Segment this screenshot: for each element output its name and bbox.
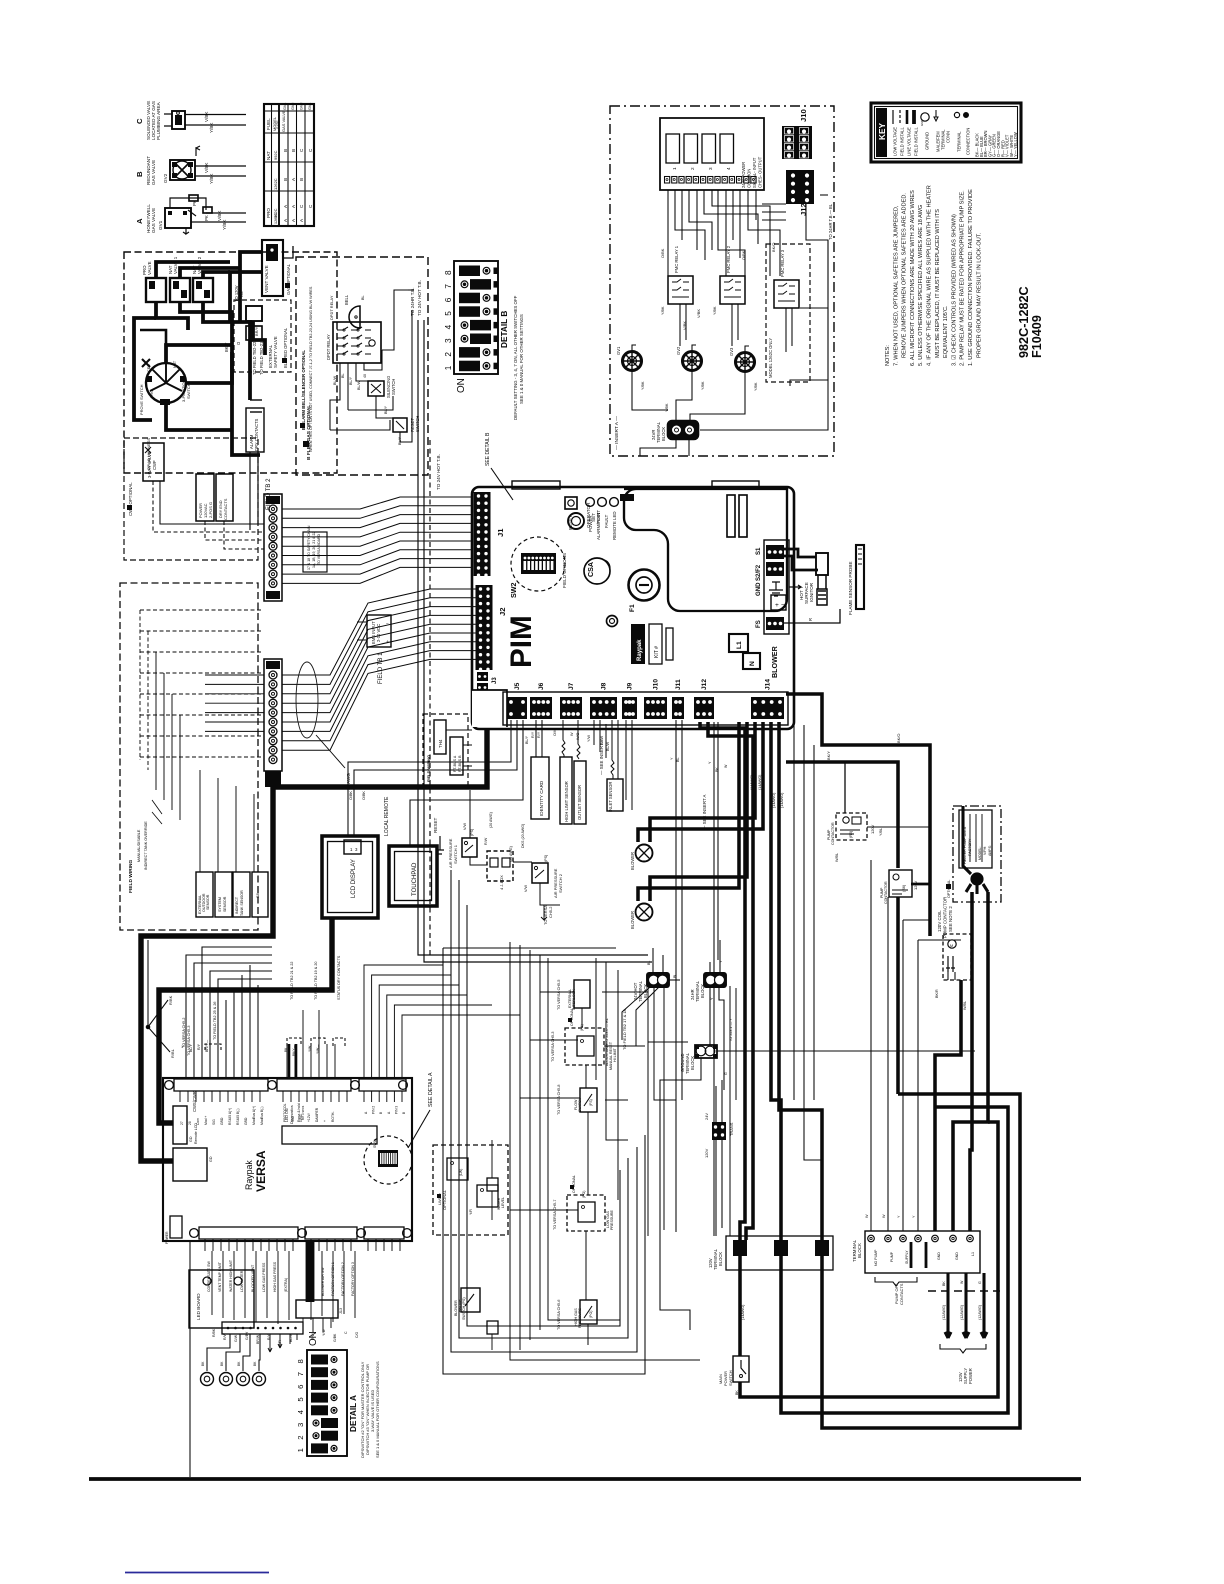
svg-text:FLAME SENSOR PROBE: FLAME SENSOR PROBE xyxy=(848,561,853,615)
wire valve B V/BK xyxy=(195,165,246,167)
sensor box SYSTEM SENSOR xyxy=(215,872,232,917)
svg-text:BK/Y: BK/Y xyxy=(224,342,229,352)
svg-text:BR/Y—: BR/Y— xyxy=(205,1040,209,1052)
svg-text:(12AWG): (12AWG) xyxy=(942,1305,946,1320)
wire valve C V/BK xyxy=(185,114,246,116)
reset button and status LEDs xyxy=(565,494,634,540)
vent valve heavy wires xyxy=(230,246,293,305)
svg-text:LEVEL: LEVEL xyxy=(501,1197,505,1208)
svg-text:V/W: V/W xyxy=(463,822,467,830)
svg-text:BK/Y—: BK/Y— xyxy=(292,1044,296,1056)
connector GV1 plug xyxy=(616,345,645,390)
VERSA bottom terminal strip 2 xyxy=(305,1227,365,1251)
heavy loop L3 xyxy=(822,897,1020,1428)
LED strip other leads xyxy=(268,1334,297,1352)
dashed bracket TO FIELD TB2 19 and 20 xyxy=(308,962,325,1054)
svg-text:Y/BK: Y/BK xyxy=(713,306,717,315)
transformer TO 120V T.B. xyxy=(230,285,265,355)
valve B (redundant gas valve) symbol xyxy=(170,146,200,180)
svg-text:TO FIELD TB2-22: TO FIELD TB2-22 xyxy=(252,341,257,375)
silencing switch xyxy=(363,374,396,398)
svg-text:PMC RELAY 2: PMC RELAY 2 xyxy=(726,245,731,273)
svg-text:FS: FS xyxy=(756,620,762,628)
svg-text:TO FIELD TB2 19 & 20: TO FIELD TB2 19 & 20 xyxy=(314,962,318,1000)
svg-text:SAFETY VALVE: SAFETY VALVE xyxy=(273,336,278,368)
svg-text:PRESSURE: PRESSURE xyxy=(610,1209,614,1230)
heavy wire J14 right to pump circuit (BK/O) xyxy=(786,694,930,936)
svg-text:BLOWER: BLOWER xyxy=(630,911,635,929)
svg-text:DKS (20 AWG): DKS (20 AWG) xyxy=(521,824,525,848)
heavy trunk LCD to VERSA remote LCD connector xyxy=(159,918,332,1123)
svg-text:6: 6 xyxy=(296,1385,305,1389)
flame sensor probe xyxy=(848,545,864,615)
heavy pump feed wires down xyxy=(935,892,988,1231)
120V coil pump contactor note xyxy=(937,897,953,938)
wires CWS box to TB2 xyxy=(153,481,264,549)
svg-text:(12AWG): (12AWG) xyxy=(960,1305,964,1320)
field terminal strip TB1 xyxy=(264,659,282,771)
svg-text:W: W xyxy=(570,732,574,736)
svg-text:G/BY: G/BY xyxy=(245,1331,249,1340)
relay PMC RELAY 3 xyxy=(774,249,799,308)
svg-text:POWER: POWER xyxy=(968,1368,973,1384)
VERSA bottom field wires xyxy=(212,1251,359,1346)
svg-text:992C: 992C xyxy=(273,150,278,160)
heavy wires J12 J14 descending to 120V terminal block xyxy=(700,722,822,1240)
svg-text:TO 24HR T.B.: TO 24HR T.B. xyxy=(410,287,415,316)
wire valve A Y/BK xyxy=(191,221,246,223)
svg-text:B: B xyxy=(283,149,288,152)
svg-text:SWITCH: SWITCH xyxy=(186,383,191,399)
svg-text:R/BK: R/BK xyxy=(212,1328,216,1337)
fan damper dry contacts box xyxy=(216,474,233,521)
svg-text:J10: J10 xyxy=(653,679,660,690)
operator set point trimpot xyxy=(568,502,601,529)
svg-text:R/Y: R/Y xyxy=(197,1043,201,1050)
svg-text:(PG): (PG) xyxy=(582,1191,586,1198)
svg-text:FIELD WIRING: FIELD WIRING xyxy=(426,755,431,782)
svg-text:PROVE SWITCH: PROVE SWITCH xyxy=(139,384,144,415)
svg-text:S1: S1 xyxy=(756,547,762,555)
wire valve B Y/BK xyxy=(195,175,246,177)
SEE DETAIL A dashed circle with SW1 xyxy=(364,1136,412,1184)
LCD display module xyxy=(322,836,378,918)
external safety valve dashed box xyxy=(234,300,291,372)
svg-text:SENSOR: SENSOR xyxy=(223,896,227,912)
heavy wires J14 to blower 2 xyxy=(638,722,747,901)
svg-text:GRD: GRD xyxy=(220,1117,224,1125)
svg-text:INDIRECT TANK OVERRIDE: INDIRECT TANK OVERRIDE xyxy=(144,821,148,870)
svg-text:1262C: 1262C xyxy=(274,213,278,224)
120V TB connector 3 xyxy=(815,1240,829,1256)
field wiring dashed box TH4 / PT-BUS xyxy=(423,714,468,786)
heater pump data factory label box xyxy=(946,806,1001,902)
svg-text:GAS OPTIONAL: GAS OPTIONAL xyxy=(286,263,291,295)
fuse F1 xyxy=(629,570,660,613)
svg-text:SWITCH: SWITCH xyxy=(391,379,396,395)
svg-text:GV1: GV1 xyxy=(616,346,621,355)
SW2 field options DIP switch xyxy=(510,537,567,598)
svg-text:OUTLET SENSOR: OUTLET SENSOR xyxy=(577,785,582,820)
svg-text:LOW VOLTAGE: LOW VOLTAGE xyxy=(893,127,898,156)
pump contactor coil dashed box xyxy=(935,934,971,1010)
svg-text:TO VERSA CH5-5: TO VERSA CH5-5 xyxy=(557,980,561,1010)
svg-text:2-POS G: 2-POS G xyxy=(208,502,213,518)
bottom middle feeder wires xyxy=(418,955,736,1236)
svg-text:J5: J5 xyxy=(514,682,521,690)
svg-text:Y/BK: Y/BK xyxy=(222,219,227,230)
svg-text:W/BL: W/BL xyxy=(963,1001,967,1010)
ground lead 4 with lug xyxy=(253,1334,266,1386)
svg-text:RESET: RESET xyxy=(568,515,573,530)
svg-text:BLOWER: BLOWER xyxy=(771,645,779,678)
svg-text:CONTACTOR: CONTACTOR xyxy=(831,822,835,845)
low gas pressure dashed box xyxy=(553,1175,614,1231)
PIM mounting hole xyxy=(607,616,618,627)
relay PMC RELAY 1 xyxy=(661,245,693,315)
svg-text:DEFAULT SETTING - 3, 4, 7 ON,: DEFAULT SETTING - 3, 4, 7 ON, ALL OTHER … xyxy=(513,295,518,420)
svg-text:V/BK: V/BK xyxy=(217,210,222,221)
LED ON diagnostics bar xyxy=(282,1103,377,1144)
sensor box INDIRECT TANK SENSOR xyxy=(233,872,250,917)
connector J2 xyxy=(476,585,508,671)
DETAIL A switch numbers xyxy=(296,1359,305,1452)
svg-text:PMC RELAY 1: PMC RELAY 1 xyxy=(674,245,679,273)
svg-text:PIN 3: PIN 3 xyxy=(394,1106,398,1114)
svg-text:6: 6 xyxy=(444,297,453,302)
svg-text:3: 3 xyxy=(444,338,453,343)
svg-text:SWITCH: SWITCH xyxy=(578,1097,582,1112)
svg-text:OPTIONAL: OPTIONAL xyxy=(442,1189,447,1210)
120V TB connector 2 xyxy=(774,1240,788,1256)
svg-text:NOTES:: NOTES: xyxy=(885,345,891,366)
svg-text:Y/R: Y/R xyxy=(469,1209,473,1215)
svg-text:J13: J13 xyxy=(339,1308,343,1314)
svg-text:T.B.: T.B. xyxy=(239,291,244,298)
24V block wiring xyxy=(653,940,975,1240)
air switch wiring xyxy=(463,790,560,925)
svg-text:O/BK: O/BK xyxy=(349,791,353,800)
VERSA bottom terminal strip 3 xyxy=(364,1227,411,1251)
svg-text:R: R xyxy=(808,618,813,621)
svg-text:(PG): (PG) xyxy=(589,1311,593,1318)
terminal block 24V HOT xyxy=(633,961,677,1002)
ground lead 2 with lug xyxy=(220,1334,241,1386)
svg-text:DRY CONTACTS: DRY CONTACTS xyxy=(254,418,259,451)
bracket 120V SUPPLY POWER xyxy=(940,1344,986,1384)
svg-text:28: 28 xyxy=(188,1121,192,1125)
svg-text:CONN: CONN xyxy=(946,131,951,143)
wire loop ellipse 20 AWG xyxy=(296,662,351,790)
wires TH4 to PIM J3/J4 xyxy=(446,730,472,766)
heavy wires J14 to blower 1 xyxy=(638,722,763,842)
svg-text:O/BK: O/BK xyxy=(741,250,746,260)
field terminal strip TB2 xyxy=(264,494,282,601)
svg-text:NAT: NAT xyxy=(266,151,271,160)
svg-text:TH4: TH4 xyxy=(438,739,443,748)
main power switch xyxy=(718,1304,749,1395)
svg-text:Y/BK: Y/BK xyxy=(665,403,669,412)
DETAIL B switch numbers 1-8 xyxy=(444,270,453,370)
svg-text:TO 24HR T.B.— BL: TO 24HR T.B.— BL xyxy=(828,203,833,240)
svg-text:5: 5 xyxy=(444,311,453,316)
pump junction dot xyxy=(963,806,988,894)
KEY legend box xyxy=(871,103,1021,162)
svg-text:GV3: GV3 xyxy=(729,347,734,356)
alarm bell internal wiring xyxy=(329,290,412,442)
svg-text:SUPPLY: SUPPLY xyxy=(905,1250,909,1264)
svg-text:BL: BL xyxy=(647,961,651,965)
svg-text:L1: L1 xyxy=(736,641,743,649)
svg-text:Y/BL: Y/BL xyxy=(879,828,883,836)
DETAIL B default setting note xyxy=(513,295,524,420)
svg-text:(20 AWG): (20 AWG) xyxy=(489,812,493,828)
svg-text:WATER HIGH LIMIT: WATER HIGH LIMIT xyxy=(229,1259,233,1292)
svg-text:STATUS DRY CONTACTS: STATUS DRY CONTACTS xyxy=(337,955,341,1000)
svg-text:GV2: GV2 xyxy=(291,103,295,110)
transformer 24V/120V xyxy=(704,1080,734,1236)
svg-text:Y/BK: Y/BK xyxy=(209,122,214,133)
dashed jumper line xyxy=(928,1290,1000,1292)
connector J10 (PIM bottom) xyxy=(644,679,667,719)
svg-text:BR/Y: BR/Y xyxy=(254,326,259,336)
svg-text:BL/Y: BL/Y xyxy=(349,376,353,385)
label Raypak VERSA xyxy=(244,1150,268,1192)
svg-text:J7: J7 xyxy=(568,682,575,690)
VERSA top terminal strip 1 xyxy=(165,1079,277,1102)
svg-text:3. ☑ CHECK CONTROLS PROVIDED: 3. ☑ CHECK CONTROLS PROVIDED (WIRED AS S… xyxy=(950,214,957,366)
svg-text:TO VERSA CH5-7: TO VERSA CH5-7 xyxy=(553,1200,557,1230)
long field wires to TB2 from VERSA xyxy=(186,947,272,1079)
svg-text:(FS): (FS) xyxy=(589,1099,593,1106)
svg-text:SYSTEM: SYSTEM xyxy=(218,897,222,912)
svg-text:POWER: POWER xyxy=(165,1231,169,1244)
insert A lower wiring to 24VR block xyxy=(632,203,833,456)
svg-text:V/BK: V/BK xyxy=(696,309,701,318)
svg-text:W: W xyxy=(865,1214,869,1218)
svg-text:ModBus A(+): ModBus A(+) xyxy=(252,1106,256,1125)
svg-text:N: N xyxy=(749,661,756,666)
svg-text:CSA: CSA xyxy=(587,562,595,577)
svg-text:BL/Y: BL/Y xyxy=(139,991,144,1000)
svg-text:PIM: PIM xyxy=(505,615,538,668)
svg-text:SEE DETAIL B: SEE DETAIL B xyxy=(485,432,491,466)
svg-text:G/W: G/W xyxy=(234,1334,238,1342)
svg-text:FAULT: FAULT xyxy=(604,514,609,528)
svg-text:TO VERSA CH5-8: TO VERSA CH5-8 xyxy=(557,1085,561,1115)
wires S1 to hot surface ignitor xyxy=(784,549,818,570)
svg-text:24V: 24V xyxy=(704,1113,709,1120)
svg-text:SWITCH: SWITCH xyxy=(728,1370,733,1386)
notes text block xyxy=(885,185,982,366)
high limit sensor box xyxy=(553,720,572,824)
air pressure switch 2 xyxy=(524,855,563,898)
svg-text:PMC RELAY 3: PMC RELAY 3 xyxy=(780,249,785,277)
svg-text:MODEL 1262C ONLY: MODEL 1262C ONLY xyxy=(768,338,773,378)
svg-text:MANUAL/DISABLE: MANUAL/DISABLE xyxy=(137,829,141,862)
svg-text:B: B xyxy=(283,178,288,181)
wire valve A V/BK xyxy=(206,212,246,214)
PIM right connector bay S1 S2/F2 GND FS xyxy=(756,540,789,634)
svg-text:Diagnostics: Diagnostics xyxy=(290,1105,294,1124)
svg-text:OPTIONAL: OPTIONAL xyxy=(570,1008,574,1026)
VERSA bottom terminal strip 1 xyxy=(190,1227,307,1251)
VERSA left power wire down to border xyxy=(189,1241,191,1477)
heavy trunk TB1 to VERSA CWS connector xyxy=(141,787,273,1161)
svg-text:REMOVE JUMPERS WHEN OPTIONAL S: REMOVE JUMPERS WHEN OPTIONAL SAFETIES AR… xyxy=(902,193,908,358)
svg-text:CONDENSATE SW: CONDENSATE SW xyxy=(207,1261,211,1292)
TB1 bottom lug pad xyxy=(265,771,281,787)
heavy wire to pump contactor 2 (BK/Y) xyxy=(786,751,898,868)
svg-text:CONTACTS: CONTACTS xyxy=(223,498,228,520)
svg-text:G/BK: G/BK xyxy=(333,1333,337,1342)
svg-text:CONTACTS: CONTACTS xyxy=(899,1283,904,1305)
svg-text:RESET: RESET xyxy=(433,817,438,833)
svg-text:Remote LCD: Remote LCD xyxy=(194,1123,198,1144)
svg-text:BL/Y: BL/Y xyxy=(525,735,529,744)
svg-text:DAMPER: DAMPER xyxy=(315,1107,319,1122)
valve NAT VALVE 2 xyxy=(192,256,213,302)
svg-text:17 & 18 TO SAFETY CHAIN: 17 & 18 TO SAFETY CHAIN xyxy=(307,525,311,570)
alarm bell / silencer optional dashed enclosure xyxy=(296,257,428,475)
svg-text:SIZE: SIZE xyxy=(275,120,280,129)
connector J7 (PIM bottom) xyxy=(560,682,582,719)
svg-text:27: 27 xyxy=(180,1121,184,1125)
svg-text:W/O: W/O xyxy=(576,732,580,740)
versa column interconnect wires xyxy=(510,942,700,1360)
svg-text:Y/W—: Y/W— xyxy=(316,1044,320,1054)
VERSA top terminal strip 3 xyxy=(359,1079,407,1102)
svg-text:+: + xyxy=(323,1120,327,1122)
svg-text:MODEL:: MODEL: xyxy=(978,846,982,860)
svg-text:DPDT RELAY: DPDT RELAY xyxy=(326,334,331,360)
Raypak logo block xyxy=(631,624,645,664)
svg-text:GND: GND xyxy=(955,1252,959,1260)
labels TO FIELD TB2 17 18 / TO J13 xyxy=(605,987,733,1050)
svg-text:HIGH GAS PRESS: HIGH GAS PRESS xyxy=(273,1261,277,1292)
svg-text:IGNITOR: IGNITOR xyxy=(809,582,814,602)
svg-text:J6: J6 xyxy=(538,682,545,690)
svg-text:GV1: GV1 xyxy=(283,103,287,110)
svg-text:CH5-2: CH5-2 xyxy=(548,907,553,918)
svg-text:PRO: PRO xyxy=(266,208,271,218)
heavy loop L2 xyxy=(781,1107,1008,1413)
svg-text:FACTORY OPTION 3: FACTORY OPTION 3 xyxy=(351,1262,355,1296)
wire to 24HR TB long vertical xyxy=(418,320,648,955)
svg-text:F10409: F10409 xyxy=(1030,315,1044,358)
svg-text:1: 1 xyxy=(296,1448,305,1452)
svg-text:4: 4 xyxy=(726,167,731,170)
optional interlock box xyxy=(196,474,214,521)
svg-text:GROUND: GROUND xyxy=(925,132,930,150)
svg-text:Y/BK: Y/BK xyxy=(661,306,665,315)
supply power leads with arrows xyxy=(942,1273,987,1338)
connector GV2 plug xyxy=(676,345,705,390)
svg-text:BL: BL xyxy=(341,373,345,378)
svg-text:KIT #: KIT # xyxy=(654,646,660,658)
labels gas train xyxy=(224,341,312,460)
relay board terminal labels xyxy=(741,156,763,188)
svg-text:BELL: BELL xyxy=(344,294,349,305)
svg-text:GV2: GV2 xyxy=(163,173,168,183)
svg-text:R/W: R/W xyxy=(484,837,488,845)
bottom border line xyxy=(89,1477,1081,1481)
svg-text:TO 24V HOT T.B.: TO 24V HOT T.B. xyxy=(417,280,422,316)
svg-text:PUMP CONTACTOR: PUMP CONTACTOR xyxy=(943,897,948,938)
svg-text:Y/BK: Y/BK xyxy=(641,381,645,390)
svg-text:Y/BK: Y/BK xyxy=(701,381,705,390)
120V terminal block xyxy=(708,1236,833,1270)
touchpad module xyxy=(389,846,437,906)
ribbon cable VERSA to LED connector xyxy=(296,1241,343,1332)
svg-text:Y/BK: Y/BK xyxy=(209,173,214,184)
svg-text:SWITCH 1: SWITCH 1 xyxy=(453,845,458,864)
terminal block GROUND xyxy=(680,1045,717,1074)
dashed bracket TO FIELD TB2 25 and 26 xyxy=(205,1002,221,1050)
svg-text:VENT TEMP LIMIT: VENT TEMP LIMIT xyxy=(218,1261,222,1292)
svg-text:CONNECTION: CONNECTION xyxy=(966,128,971,155)
svg-text:S2/F2: S2/F2 xyxy=(756,564,762,581)
thin pump sense wires down to terminal block xyxy=(865,860,961,1231)
wires TB2 to J1 xyxy=(282,497,473,583)
svg-text:PRESSURE: PRESSURE xyxy=(578,1307,582,1328)
svg-text:F1: F1 xyxy=(629,604,636,612)
svg-text:1: 1 xyxy=(444,365,453,370)
svg-text:C: C xyxy=(135,118,144,124)
svg-text:(12AWG): (12AWG) xyxy=(978,1305,982,1320)
svg-text:V/W: V/W xyxy=(524,884,528,892)
svg-text:O/BK: O/BK xyxy=(362,791,366,800)
connector GV3 plug xyxy=(729,346,758,391)
svg-text:VENT VALVE: VENT VALVE xyxy=(264,265,269,293)
J9-J11 wires down xyxy=(626,720,707,1232)
svg-text:CEE: CEE xyxy=(147,364,151,372)
junction box dashed xyxy=(487,851,513,890)
wires TB1 to field boxes xyxy=(200,675,264,872)
svg-text:AMPS:: AMPS: xyxy=(988,845,992,856)
svg-text:+: + xyxy=(775,602,779,609)
svg-text:3: 3 xyxy=(708,167,713,170)
svg-text:G: G xyxy=(978,1281,982,1284)
air pressure switch 1 xyxy=(448,829,488,868)
svg-text:−: − xyxy=(781,602,785,609)
svg-text:PK: PK xyxy=(204,215,209,221)
label valve B xyxy=(135,156,214,185)
connector J8 (PIM bottom) xyxy=(590,682,617,719)
svg-text:(14AWG): (14AWG) xyxy=(758,774,762,790)
connector J1 xyxy=(474,492,506,577)
120V TB connector 1 xyxy=(733,1240,747,1256)
wires LCD to J5 xyxy=(348,720,523,846)
svg-text:Y/BK: Y/BK xyxy=(754,382,758,391)
svg-text:SEE DETAIL A: SEE DETAIL A xyxy=(428,1072,434,1107)
svg-text:CWS/CWR: CWS/CWR xyxy=(192,1091,197,1112)
svg-text:Raypak: Raypak xyxy=(244,1160,254,1190)
connector J11 (PIM bottom) xyxy=(672,679,684,719)
DETAIL A notes xyxy=(360,1361,380,1458)
relay PMC RELAY 2 xyxy=(713,245,745,315)
svg-text:J8: J8 xyxy=(601,682,608,690)
svg-text:GND: GND xyxy=(920,120,924,126)
model 1262C only dashed box xyxy=(766,244,810,382)
sensor box EXTERNAL OUTDOOR SENSOR xyxy=(196,872,213,917)
svg-text:TO FIELD TB2 25 & 26: TO FIELD TB2 25 & 26 xyxy=(213,1002,217,1040)
svg-text:PK: PK xyxy=(192,200,197,206)
blower motor 1 xyxy=(630,845,653,871)
blower terminal N xyxy=(743,653,760,669)
svg-text:V/BK: V/BK xyxy=(204,111,209,122)
Raypak VERSA board outline xyxy=(163,1078,412,1241)
